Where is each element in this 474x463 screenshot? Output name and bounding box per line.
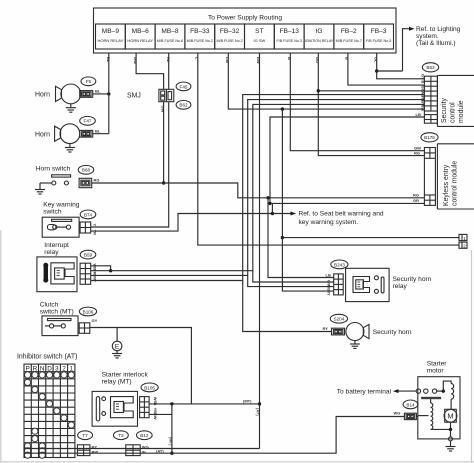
- key warning switch: [42, 202, 80, 238]
- right edge connector 2: [459, 242, 467, 248]
- svg-text:Ref. to Lighting: Ref. to Lighting: [416, 26, 461, 33]
- svg-text:BL: BL: [95, 128, 101, 133]
- keyless entry control module connector: [424, 148, 435, 206]
- starter motor M armature: [444, 409, 457, 441]
- svg-text:GO: GO: [315, 57, 320, 63]
- horn 1: [35, 84, 81, 104]
- svg-text:B105: B105: [144, 385, 155, 390]
- svg-text:M: M: [447, 412, 453, 421]
- connector FB-13: [274, 24, 304, 49]
- starter motor plunger: [421, 397, 441, 403]
- scan edge artifacts: [0, 230, 474, 463]
- security control module connector: [424, 76, 437, 123]
- interrupt relay: [37, 242, 77, 291]
- svg-text:MB–6: MB–6: [132, 28, 150, 35]
- wire SMJ pin right down to key warning switch: [91, 102, 169, 227]
- svg-text:Horn: Horn: [35, 92, 50, 99]
- inhibitor switch grid: [24, 364, 75, 457]
- connector on starter interlock relay: [140, 397, 158, 420]
- connector on interrupt relay: [80, 263, 98, 284]
- svg-text:WG: WG: [394, 411, 401, 416]
- svg-text:B243: B243: [334, 262, 345, 267]
- connector B106 oval: [79, 307, 96, 316]
- svg-text:Horn: Horn: [35, 131, 50, 138]
- svg-text:To Power Supply Routing: To Power Supply Routing: [208, 15, 282, 22]
- svg-text:B59: B59: [84, 253, 93, 258]
- starter motor solenoid coil: [418, 403, 451, 429]
- svg-text:relay (MT): relay (MT): [102, 379, 132, 386]
- svg-text:Security horn: Security horn: [393, 276, 432, 283]
- connector on clutch switch: [79, 318, 97, 334]
- svg-text:relay: relay: [393, 283, 408, 290]
- svg-text:(AT): (AT): [256, 408, 261, 416]
- wire interrupt relay pin2 up to module pin6: [91, 104, 425, 270]
- wire FB-32 to module pin7 with FB-13 junction: [225, 53, 424, 111]
- wire MB-9 drop: [106, 53, 111, 134]
- svg-text:Y: Y: [93, 224, 98, 227]
- svg-text:Horn switch: Horn switch: [36, 166, 71, 173]
- svg-text:Starter: Starter: [427, 361, 448, 368]
- wire clutch switch to interlock line, branch to ground E: [90, 328, 192, 404]
- connector B74 oval: [80, 210, 96, 219]
- svg-text:FB–2: FB–2: [341, 28, 357, 35]
- connector S204 oval: [330, 314, 347, 323]
- connector FB-32: [215, 24, 245, 49]
- connector B176 oval: [421, 133, 438, 142]
- starter motor field coil: [443, 381, 453, 409]
- security horn: [346, 323, 412, 341]
- svg-text:ST: ST: [255, 28, 263, 35]
- keyless entry control module box: [437, 144, 474, 209]
- connector box T3/B12 on bottom lines: [126, 444, 149, 455]
- inhibitor switch contact circles: [25, 372, 75, 459]
- svg-text:switch (MT): switch (MT): [40, 309, 74, 316]
- wire horn2 to MB-9 line with label BL: [93, 128, 109, 133]
- svg-text:(MT): (MT): [168, 437, 173, 446]
- svg-text:T3: T3: [118, 433, 124, 438]
- ground below horn 2: [65, 144, 75, 152]
- connector F5 oval: [81, 77, 96, 86]
- svg-text:M/B FUSE No.2: M/B FUSE No.2: [187, 39, 213, 43]
- wire interrupt pin2 branch down to security horn relay pin2: [253, 271, 334, 282]
- starter motor solenoid contacts: [416, 389, 445, 393]
- keyless pin labels bottom: [413, 193, 419, 204]
- wire MB-8 to SMJ: [166, 53, 171, 89]
- connector B243 oval: [331, 260, 348, 269]
- connector FB-3: [364, 24, 394, 49]
- wire MB-6 to SMJ: [133, 53, 164, 89]
- connector B59 oval: [80, 250, 96, 259]
- wire starter interlock relay pin2 (MT) line to ST vertical: [149, 399, 260, 417]
- svg-text:MB–9: MB–9: [102, 28, 120, 35]
- svg-text:Ref. to Seat belt warning and: Ref. to Seat belt warning and: [299, 211, 384, 218]
- svg-text:Interrupt: Interrupt: [44, 242, 69, 249]
- svg-text:motor: motor: [427, 368, 445, 375]
- svg-text:Starter interlock: Starter interlock: [102, 372, 149, 379]
- svg-text:Clutch: Clutch: [40, 302, 59, 309]
- connector on horn switch: [79, 178, 99, 188]
- connector on security horn: [332, 328, 345, 335]
- svg-text:F45: F45: [180, 84, 188, 89]
- svg-text:B: B: [287, 57, 292, 60]
- svg-text:Security horn: Security horn: [373, 329, 412, 336]
- svg-text:B14: B14: [406, 402, 415, 407]
- connector T3 oval: [114, 431, 129, 440]
- ground at horn switch: [35, 190, 45, 195]
- svg-text:LB: LB: [326, 273, 331, 278]
- wire FB-3 to module pin1 and lighting ref: [374, 53, 425, 79]
- wire bottom line B to B14 and starter motor: [24, 411, 404, 454]
- connector B62 oval: [176, 100, 191, 109]
- svg-text:RG: RG: [414, 150, 420, 155]
- svg-text:YR: YR: [93, 230, 98, 236]
- svg-text:FB–3: FB–3: [371, 28, 387, 35]
- svg-text:F5: F5: [86, 79, 92, 84]
- svg-text:RY: RY: [327, 290, 332, 296]
- wire horn switch net to keyless pin3 and security horn relay: [92, 183, 425, 278]
- svg-text:F/B FUSE No.3: F/B FUSE No.3: [276, 39, 301, 43]
- svg-text:B: B: [345, 57, 350, 60]
- svg-text:B176: B176: [424, 135, 435, 140]
- svg-text:key warning system.: key warning system.: [299, 219, 359, 226]
- svg-text:2: 2: [463, 244, 466, 249]
- svg-text:Keyless entry: Keyless entry: [443, 164, 450, 206]
- power supply routing box: [94, 8, 397, 53]
- connector B14 on starter wire: [404, 413, 417, 419]
- wire interrupt pin3 branch down to security horn relay pin3: [248, 275, 334, 286]
- to battery terminal arrow: [337, 388, 416, 395]
- ground below security horn: [350, 341, 360, 349]
- svg-text:B106: B106: [83, 309, 94, 314]
- svg-text:relay: relay: [44, 249, 59, 256]
- arrow ref to seat belt warning: [272, 211, 383, 227]
- connector B63 oval: [422, 63, 438, 72]
- svg-text:S204: S204: [334, 317, 345, 322]
- ground below horn 1: [66, 104, 76, 112]
- svg-text:B74: B74: [84, 212, 93, 217]
- connector MB-9: [96, 24, 126, 49]
- svg-text:To battery terminal: To battery terminal: [337, 388, 392, 395]
- svg-text:(MT): (MT): [243, 399, 252, 404]
- wire interrupt relay pin1 jumper: [91, 266, 113, 273]
- wire FB-13 to keyless pin1: [287, 53, 424, 151]
- connector IG: [304, 24, 334, 49]
- SMJ connector: [159, 89, 174, 112]
- svg-text:T7: T7: [82, 433, 88, 438]
- wire bottom line A to ST vertical: [24, 449, 260, 454]
- svg-text:B12: B12: [140, 433, 149, 438]
- wire SMJ pin left down to horn switch line: [162, 102, 165, 185]
- wire horn1 to MB-9 line with label BL: [93, 89, 111, 96]
- connector FB-2: [334, 24, 364, 49]
- svg-text:B68: B68: [82, 168, 91, 173]
- svg-text:(Tail & Illumi.): (Tail & Illumi.): [416, 40, 456, 47]
- connector B12 oval: [137, 431, 153, 440]
- svg-text:Security: Security: [441, 98, 448, 123]
- svg-text:E: E: [115, 344, 120, 351]
- connector MB-6: [125, 24, 155, 49]
- svg-text:Key warning: Key warning: [43, 202, 80, 209]
- svg-text:B63: B63: [426, 65, 435, 70]
- svg-text:FB–33: FB–33: [190, 28, 210, 35]
- connector B68 oval: [78, 165, 94, 174]
- svg-text:M/B FUSE No.7: M/B FUSE No.7: [336, 39, 362, 43]
- horn switch: [36, 166, 71, 190]
- svg-text:GR: GR: [413, 198, 419, 203]
- svg-text:system.: system.: [416, 33, 439, 40]
- svg-text:M/B FUSE No.2: M/B FUSE No.2: [216, 39, 242, 43]
- svg-text:SMJ: SMJ: [127, 93, 141, 100]
- svg-text:RG: RG: [94, 178, 100, 183]
- svg-text:FB–13: FB–13: [279, 28, 299, 35]
- connector FB-33: [185, 24, 215, 49]
- wire module LB pin down to keyless pin4 line: [268, 112, 424, 205]
- svg-text:MB–8: MB–8: [161, 28, 179, 35]
- wire interrupt relay pin4 up to module pin4: [91, 95, 425, 281]
- module pin labels: [421, 74, 426, 111]
- connector on security horn relay: [326, 273, 344, 296]
- horn 2: [35, 124, 80, 144]
- wire key warning pin2 net to seat belt ref and keyless pin4: [91, 203, 425, 231]
- wire interrupt relay pin3 up to module pin5: [91, 100, 425, 276]
- svg-text:RY: RY: [323, 326, 329, 331]
- svg-text:module: module: [458, 100, 465, 123]
- wire FB-2 to module pin2: [345, 53, 425, 85]
- svg-text:FB–32: FB–32: [220, 28, 240, 35]
- svg-text:BL: BL: [106, 57, 111, 63]
- svg-text:1: 1: [463, 236, 466, 241]
- wire ST drop to starter circuit: [256, 53, 261, 449]
- svg-text:BL: BL: [95, 89, 101, 94]
- ground E circle: [112, 341, 122, 358]
- connector F47 oval: [80, 116, 96, 125]
- security horn relay: [346, 268, 432, 301]
- svg-text:BW: BW: [256, 57, 261, 64]
- ground below starter motor: [446, 441, 456, 451]
- connector on key warning switch: [80, 222, 98, 235]
- svg-text:control module: control module: [452, 161, 459, 206]
- svg-text:switch: switch: [43, 209, 62, 216]
- ref to lighting system arrow: [403, 26, 461, 71]
- svg-text:HORN RELAY: HORN RELAY: [98, 38, 124, 43]
- connector MB-8: [155, 24, 185, 49]
- connector T7 oval: [78, 431, 93, 440]
- clutch switch (MT): [40, 302, 78, 336]
- svg-text:GW: GW: [133, 57, 138, 64]
- svg-text:IGNITION RELAY: IGNITION RELAY: [305, 39, 334, 43]
- svg-text:RL: RL: [166, 57, 171, 63]
- connector ST: [245, 24, 275, 49]
- svg-text:M/B FUSE No.6: M/B FUSE No.6: [157, 39, 183, 43]
- svg-text:B62: B62: [179, 103, 188, 108]
- starter motor: [418, 361, 460, 439]
- connector B105 oval: [141, 383, 158, 392]
- svg-text:IG: IG: [316, 28, 323, 35]
- right edge connector 1: [459, 234, 467, 240]
- connector F45 oval: [176, 82, 191, 91]
- wire branch down from junction to right edge connector 1 and relay pin4: [281, 109, 459, 291]
- svg-text:F47: F47: [84, 119, 92, 124]
- connector on horn 2: [80, 130, 93, 137]
- wire IG to module pin3 and keyless pin2: [315, 53, 424, 156]
- svg-text:LW: LW: [225, 57, 230, 63]
- wire FB-33 to right edge connector 2: [195, 53, 460, 245]
- svg-text:OL: OL: [374, 57, 379, 63]
- svg-text:LB: LB: [416, 112, 421, 117]
- wire interrupt pin4 branch down to security horn: [243, 281, 332, 332]
- starter interlock relay (MT): [92, 372, 148, 426]
- svg-text:F/B FUSE No.5: F/B FUSE No.5: [366, 39, 391, 43]
- connector on horn 1: [80, 91, 93, 98]
- svg-text:control: control: [450, 102, 457, 123]
- svg-text:RG: RG: [413, 193, 419, 198]
- connector B14 oval: [403, 400, 418, 409]
- svg-text:HORN RELAY: HORN RELAY: [127, 38, 153, 43]
- connector box T7 on bottom lines: [77, 444, 98, 455]
- svg-text:GY: GY: [92, 318, 98, 323]
- wire relay pin4 down via MT branch to bottom line B: [149, 404, 173, 455]
- security control module box: [437, 75, 474, 126]
- svg-text:Inhibitor switch (AT): Inhibitor switch (AT): [17, 354, 77, 361]
- svg-text:GW: GW: [161, 106, 166, 113]
- svg-text:IG SW: IG SW: [254, 38, 266, 43]
